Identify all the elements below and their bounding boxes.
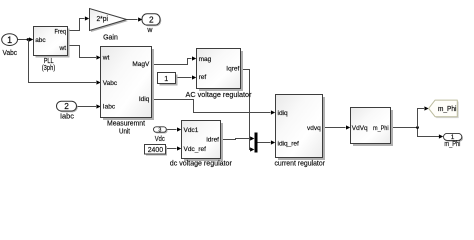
wire branch up to goto tag (418, 109, 425, 128)
constant 1 block (160, 75, 178, 86)
input port 3 Vdc (155, 128, 168, 133)
svg-text:2*pi: 2*pi (96, 16, 108, 23)
svg-text:3: 3 (158, 128, 161, 134)
node junction on In1 wire (27, 38, 30, 41)
svg-text:2: 2 (64, 101, 69, 111)
svg-text:Idiq: Idiq (139, 96, 150, 103)
svg-text:dc voltage regulator: dc voltage regulator (170, 158, 232, 167)
svg-text:idref: idref (206, 136, 219, 143)
svg-text:Vdc1: Vdc1 (184, 127, 199, 134)
svg-text:m_Phi: m_Phi (373, 125, 389, 132)
PLL block (36, 29, 70, 58)
svg-text:PLL: PLL (44, 58, 54, 65)
wire In1 to PLL abc (18, 39, 29, 41)
wire Vdc port to dc Vdc1 (166, 129, 176, 131)
mux block (255, 133, 258, 153)
wire mux out to current regulator idiq_ref (258, 142, 271, 144)
gain block 2*pi (91, 10, 128, 32)
svg-text:Gain: Gain (103, 35, 118, 42)
svg-text:idiq_ref: idiq_ref (278, 141, 300, 148)
output port 1 m_Phi (445, 135, 463, 142)
svg-text:idiq: idiq (278, 110, 289, 117)
svg-text:Iqref: Iqref (226, 66, 239, 73)
VdVq to m_Phi block (353, 110, 393, 146)
svg-text:Measuremnt: Measuremnt (107, 121, 145, 128)
svg-text:ref: ref (199, 74, 207, 81)
wire PLL wt to MU wt (68, 46, 97, 58)
svg-text:Unit: Unit (119, 129, 130, 136)
svg-text:current regulator: current regulator (274, 159, 325, 168)
AC voltage regulator block (199, 51, 243, 91)
svg-text:2: 2 (149, 14, 154, 24)
svg-text:wt: wt (102, 54, 110, 61)
svg-text:1: 1 (7, 35, 12, 45)
svg-text:m_Phi: m_Phi (438, 106, 457, 113)
wire AC Iqref to mux input2 (241, 70, 250, 150)
wire constant 2400 to dc Vdc_ref (166, 148, 177, 150)
wire In2 to MU Iabc (77, 106, 97, 108)
svg-text:1: 1 (164, 74, 168, 83)
Measurement Unit block (103, 49, 154, 120)
input port 2 Iabc (58, 102, 78, 112)
wire constant1 to AC ref (176, 77, 192, 79)
svg-text:VdVq: VdVq (352, 125, 368, 132)
wire dc idref to mux input1 (221, 139, 250, 140)
svg-text:Vdc_ref: Vdc_ref (184, 146, 207, 153)
output port w (2) (143, 15, 161, 26)
svg-text:Vabc: Vabc (103, 80, 118, 87)
svg-text:w: w (146, 27, 153, 34)
svg-text:(3ph): (3ph) (42, 65, 56, 72)
svg-text:Iabc: Iabc (60, 114, 75, 121)
svg-text:wt: wt (59, 45, 67, 52)
svg-text:mag: mag (199, 56, 212, 63)
wire In1 branch down to MU Vabc (29, 40, 97, 83)
wire current regulator vdvq to VdVq block (323, 127, 346, 129)
wire MU Idiq to current regulator idiq (152, 100, 271, 113)
wire VdVq m_Phi out to junction and out port (391, 128, 439, 137)
svg-text:m_Phi: m_Phi (444, 141, 460, 148)
svg-text:Vabc: Vabc (3, 48, 18, 57)
svg-text:Vdc: Vdc (155, 136, 165, 143)
svg-text:Freq: Freq (55, 28, 67, 35)
constant 2400 block (146, 146, 167, 156)
svg-text:2400: 2400 (148, 145, 163, 154)
dc voltage regulator block (184, 123, 223, 161)
svg-text:abc: abc (35, 37, 46, 44)
goto tag m_Phi (430, 102, 459, 119)
wire Gain output to port w (127, 19, 138, 21)
input port 1 (2, 34, 18, 46)
svg-text:AC voltage regulator: AC voltage regulator (186, 90, 252, 99)
svg-text:MagV: MagV (132, 61, 150, 68)
current regulator block (278, 97, 325, 160)
wire PLL Freq to Gain input (68, 19, 85, 31)
svg-text:Iabc: Iabc (103, 104, 116, 111)
wire MU MagV to AC mag (152, 59, 192, 65)
svg-text:vdvq: vdvq (307, 125, 321, 132)
node junction m_Phi branch (416, 126, 419, 129)
